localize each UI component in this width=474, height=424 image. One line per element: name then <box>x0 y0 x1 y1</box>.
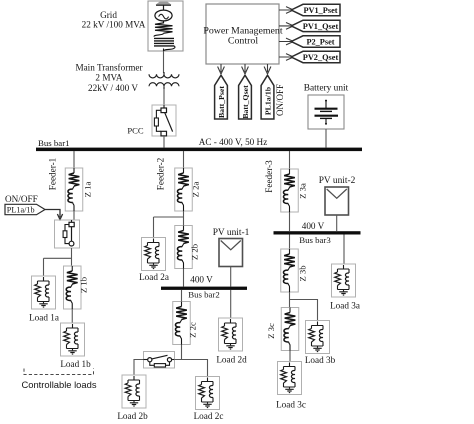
svg-text:Batt_Pset: Batt_Pset <box>217 86 226 118</box>
svg-text:ON/OFF: ON/OFF <box>275 84 285 116</box>
load 2c <box>196 377 220 410</box>
svg-text:Z 1b: Z 1b <box>79 277 89 293</box>
svg-text:400 V: 400 V <box>302 221 325 231</box>
svg-text:Load 1b: Load 1b <box>60 359 91 369</box>
svg-text:AC - 400 V, 50 Hz: AC - 400 V, 50 Hz <box>199 137 268 147</box>
svg-text:22 kV /100 MVA: 22 kV /100 MVA <box>82 20 146 30</box>
wire Z2b to bus bar2 <box>183 269 185 287</box>
battery unit box <box>308 95 344 129</box>
svg-text:2 MVA: 2 MVA <box>95 73 123 83</box>
PV unit-2 <box>325 187 349 215</box>
arrow tag to switch <box>45 210 63 220</box>
wire Z1a to switch <box>73 211 75 220</box>
breaker switch 2 (horizontal) <box>144 352 175 369</box>
svg-text:Bus bar1: Bus bar1 <box>38 138 70 148</box>
signal tag Batt_Pset <box>215 75 228 119</box>
grid top marker <box>156 2 172 5</box>
load 3c <box>278 362 302 395</box>
PL1a/1b pointer tag <box>5 204 45 214</box>
load 1a <box>32 276 56 309</box>
svg-text:PV1_Qset: PV1_Qset <box>303 22 339 31</box>
impedance Z3c <box>281 308 299 351</box>
svg-text:Feeder-3: Feeder-3 <box>264 160 274 193</box>
wire transformer to PCC <box>163 89 165 105</box>
main transformer <box>149 72 179 89</box>
svg-text:Z 3a: Z 3a <box>298 183 308 199</box>
load 3a <box>332 264 356 297</box>
load 3b <box>306 321 330 354</box>
AC source (sine in ellipse) <box>155 10 172 21</box>
wire bus2 to Z2c <box>181 290 183 302</box>
wire PV2 to bus bar3 <box>336 215 338 231</box>
svg-text:400 V: 400 V <box>190 275 213 285</box>
bus bar1 <box>36 148 362 152</box>
svg-text:Load 3b: Load 3b <box>305 355 336 365</box>
svg-text:Battery unit: Battery unit <box>304 84 349 94</box>
load 2a <box>142 238 166 271</box>
wire bus3 to load 3a <box>343 235 345 265</box>
wire below switch with split <box>44 248 72 276</box>
PCC breaker <box>152 105 176 148</box>
svg-text:Z 2a: Z 2a <box>191 182 201 198</box>
svg-text:Feeder-1: Feeder-1 <box>48 157 58 190</box>
signal tag PV2_Qset <box>291 51 340 62</box>
svg-text:PV unit-1: PV unit-1 <box>213 228 250 238</box>
grid series resistor <box>155 21 173 33</box>
svg-text:Load 3a: Load 3a <box>330 301 360 311</box>
svg-text:PV1_Pset: PV1_Pset <box>303 6 337 15</box>
breaker switch 1 (closed) <box>55 220 80 248</box>
svg-text:Load 2d: Load 2d <box>216 354 247 364</box>
svg-text:Z 1a: Z 1a <box>83 182 93 198</box>
wire bus2 to load 2d <box>230 290 232 318</box>
svg-text:PL1a/1b: PL1a/1b <box>263 86 272 115</box>
wire battery to bus bar1 <box>325 129 327 148</box>
svg-text:Z 2b: Z 2b <box>190 244 200 260</box>
impedance Z2b <box>175 226 193 269</box>
svg-text:PL1a/1b: PL1a/1b <box>7 205 35 214</box>
svg-text:Load 2b: Load 2b <box>117 411 148 421</box>
wire bus1 to Z2a <box>183 151 185 168</box>
svg-text:Feeder-2: Feeder-2 <box>156 157 166 190</box>
wire Z3b junction to Z3c and load 3b <box>290 292 318 321</box>
svg-text:Bus bar3: Bus bar3 <box>299 235 331 245</box>
impedance Z3a <box>281 169 299 212</box>
impedance Z3b <box>281 249 299 292</box>
svg-text:Z 2c: Z 2c <box>188 322 198 338</box>
svg-text:Controllable loads: Controllable loads <box>21 379 96 390</box>
signal tag PV1_Qset <box>291 20 340 31</box>
svg-text:Z 3c: Z 3c <box>266 323 276 339</box>
wire bus3 to Z3b <box>289 235 291 250</box>
svg-text:Load 1a: Load 1a <box>29 312 59 322</box>
impedance Z1a <box>65 168 83 211</box>
bus bar3 <box>274 231 361 234</box>
wire Z3c to load 3c <box>289 351 291 362</box>
svg-text:Main Transformer: Main Transformer <box>75 63 142 73</box>
signal tag Batt_Qset <box>239 75 252 119</box>
bus bar2 <box>161 287 247 290</box>
svg-text:Load 2c: Load 2c <box>194 411 224 421</box>
svg-text:ON/OFF: ON/OFF <box>5 194 38 204</box>
wire bus1 to Z1a <box>73 151 75 168</box>
signal tag PL1a/1b <box>261 75 274 119</box>
wire Z2c junction <box>175 345 208 377</box>
svg-text:Grid: Grid <box>100 10 117 20</box>
svg-text:PV2_Qset: PV2_Qset <box>303 53 339 62</box>
signal tag PV1_Pset <box>291 4 340 15</box>
impedance Z2a <box>175 168 193 211</box>
svg-text:Load 2a: Load 2a <box>139 272 169 282</box>
controllable loads bracket <box>24 369 94 375</box>
wire bus1 to Z3a <box>289 151 291 169</box>
load 1b <box>61 323 85 356</box>
svg-text:Bus bar2: Bus bar2 <box>188 289 220 299</box>
wire grid to transformer <box>163 51 165 73</box>
svg-text:Batt_Qset: Batt_Qset <box>241 85 250 119</box>
grid equivalent source box <box>148 1 183 51</box>
svg-text:Load 3c: Load 3c <box>276 400 306 410</box>
output arrows right <box>279 7 294 61</box>
svg-text:PCC: PCC <box>127 126 144 136</box>
impedance Z1b <box>64 266 82 309</box>
grid series inductor <box>154 33 164 36</box>
wire Z3a to bus bar3 <box>289 212 291 231</box>
svg-text:PV unit-2: PV unit-2 <box>319 176 356 186</box>
svg-text:Control: Control <box>228 36 258 47</box>
signal tag P2_Pset <box>291 36 340 47</box>
svg-text:22kV / 400 V: 22kV / 400 V <box>88 83 138 93</box>
wire PV1 to bus bar2 <box>230 267 232 287</box>
wire Z2a split to load2a and Z2b <box>154 211 184 238</box>
svg-text:P2_Pset: P2_Pset <box>306 38 334 47</box>
load 2d <box>219 318 243 351</box>
PMC box <box>206 4 279 64</box>
svg-text:Z 3b: Z 3b <box>298 266 308 282</box>
wire Z1b to load 1b <box>71 309 73 323</box>
impedance Z2c <box>173 302 191 345</box>
wire switch2 to load 2b <box>134 360 144 376</box>
battery symbol <box>315 100 339 125</box>
output arrows bottom <box>218 64 271 74</box>
load 2b <box>122 375 146 408</box>
PV unit-1 <box>219 239 243 267</box>
